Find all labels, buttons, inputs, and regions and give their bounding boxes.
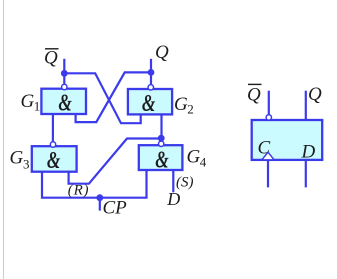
gate G1 (NAND) [41, 89, 86, 114]
svg-text:&: & [47, 148, 61, 174]
wire D input stub below G4 [172, 170, 174, 193]
wire G4 output up to G2 bottom [160, 114, 162, 141]
svg-text:G: G [174, 94, 188, 115]
node Qbar label (block) [247, 84, 262, 105]
svg-text:(R): (R) [68, 183, 90, 199]
dynamic-input triangle on C [262, 152, 274, 160]
svg-text:Q: Q [44, 48, 58, 69]
op bubble block Qbar [266, 115, 271, 120]
junction dot above G4 [158, 135, 165, 142]
svg-text:Q: Q [155, 42, 169, 63]
svg-text:G: G [21, 91, 35, 112]
svg-text:G: G [10, 148, 24, 169]
svg-text:Q: Q [247, 85, 261, 106]
svg-text:D: D [301, 142, 316, 163]
wire block Qbar lead [268, 91, 270, 115]
junction dot on Qbar wire [61, 70, 68, 77]
wire block Q lead [305, 91, 307, 120]
svg-text:G: G [187, 147, 201, 168]
svg-text:4: 4 [200, 154, 207, 169]
svg-text:D: D [166, 189, 180, 209]
wire from G4 output junction diagonally down to G3 right input [69, 139, 162, 184]
gate G2 (NAND) [128, 89, 172, 114]
svg-text:3: 3 [23, 157, 30, 172]
svg-text:CP: CP [103, 198, 128, 219]
wire G1 output feed down from G1 bottom to G3 bubble [52, 114, 54, 141]
wire Qbar stub down to G1 output bubble [63, 59, 65, 84]
wire Q stub down to G2 output bubble [150, 59, 152, 85]
wire block D lead [305, 160, 307, 188]
latch block U1 [252, 120, 323, 160]
svg-text:&: & [142, 91, 156, 117]
op bubble G4 output [159, 141, 164, 146]
svg-text:&: & [155, 147, 169, 173]
svg-text:(S): (S) [176, 174, 194, 190]
junction dot on Q wire [148, 69, 155, 76]
junction dot CP [96, 194, 103, 201]
wire cross-coupling from Qbar node to G2 lower input [64, 73, 140, 123]
svg-text:&: & [58, 90, 72, 116]
wire cross-coupling from Q node to G1 lower input [76, 72, 151, 122]
svg-text:Q: Q [308, 84, 322, 105]
op bubble G3 output [50, 142, 55, 147]
wire CP net: G3 left input down, along bottom, up to G4 left input [42, 170, 147, 198]
op bubble G1 output [62, 84, 67, 89]
wire CP stub [99, 198, 101, 211]
node Qbar (output label, left circuit) [44, 48, 59, 69]
svg-text:1: 1 [34, 99, 41, 114]
svg-text:2: 2 [187, 102, 194, 117]
gate G3 (NAND) [32, 146, 77, 172]
op bubble G2 output [148, 85, 153, 90]
left page border line [3, 0, 5, 279]
wire block C lead [267, 160, 269, 188]
gate G4 (NAND) [139, 145, 183, 170]
